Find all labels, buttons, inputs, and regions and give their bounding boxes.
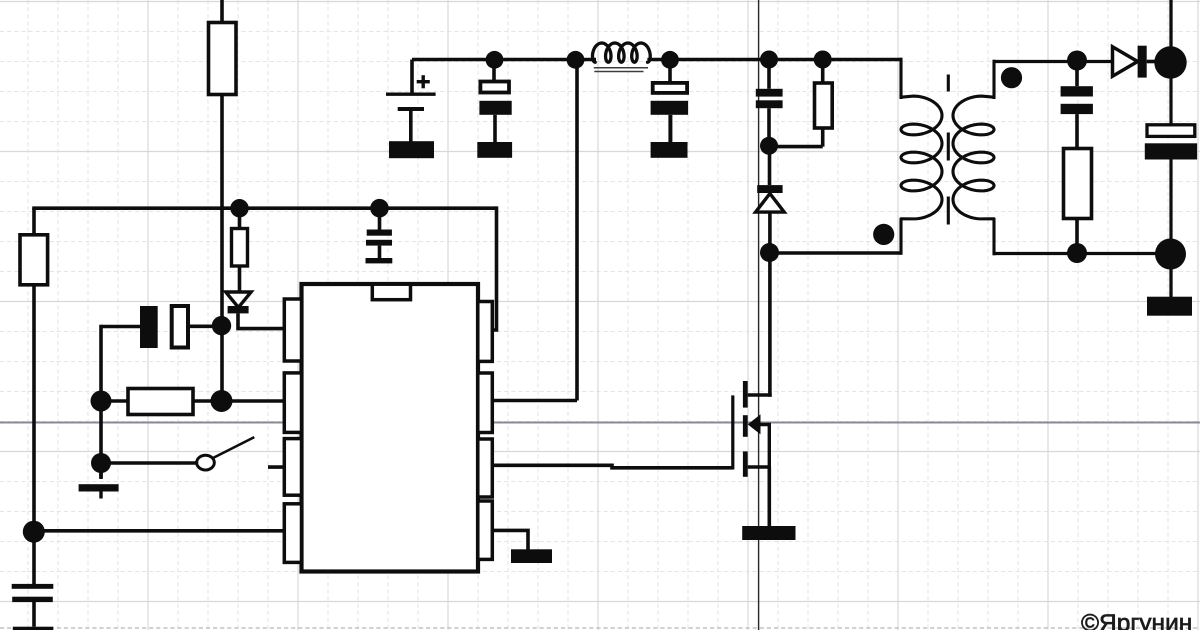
IC U1 top tab [372,284,410,300]
wire [268,465,285,469]
capacitor C8 [1075,66,1079,86]
wire [770,251,902,255]
pin 5 [478,501,493,559]
node [23,521,45,543]
ground [1147,297,1192,316]
capacitor C5 [492,60,496,82]
resistor R5 [821,60,825,84]
pin 4 [284,504,301,563]
capacitor C9 [1169,77,1172,125]
pin 1 [284,299,301,361]
node [661,51,679,69]
node [1067,51,1087,71]
resistor R1 [209,23,237,95]
wire [492,465,733,468]
capacitor C1 [140,306,158,348]
wire [101,461,198,465]
resistor R3 [101,399,128,403]
ground [477,142,512,158]
transistor Q1 [731,395,734,469]
node [486,51,504,69]
wire [32,206,496,210]
transformer T1 [901,58,994,256]
wire [220,94,224,402]
polarity dot secondary [1001,67,1022,88]
pin 7 [478,373,493,433]
wire [1169,0,1172,48]
pin 6 [478,439,493,497]
ground [651,142,688,158]
wire [1169,268,1172,298]
wire [492,206,497,330]
pin 8 [478,302,493,362]
node [230,199,248,217]
capacitor C2 [12,584,54,589]
ground [742,526,795,540]
capacitor C3 [32,602,36,627]
ground [378,246,382,258]
inductor L1 [592,43,650,62]
node output- [1155,239,1186,270]
resistor R6 [1064,149,1092,219]
ground [389,141,434,158]
wire [647,58,901,62]
diode D2 [768,147,772,186]
node [567,51,585,69]
node [212,316,231,335]
pin 2 [284,373,301,433]
svg-text:©Яргунин: ©Яргунин [1081,610,1192,630]
node [91,391,112,412]
node [370,199,389,218]
wire [220,0,224,24]
wire [492,399,577,403]
diode D1 [226,292,251,308]
wire [994,252,1157,255]
wire [412,58,596,62]
polarity dot primary [873,224,894,245]
wire [994,60,1113,63]
node [91,453,111,473]
wire [99,325,103,479]
wire [32,285,36,584]
resistor R4 [32,208,36,235]
wire [238,313,285,328]
node [1067,243,1087,263]
pin 3 [284,439,301,496]
capacitor C7 [767,60,771,89]
wire [34,529,285,533]
ground [511,549,552,563]
diode D3 [1113,47,1138,76]
node [211,390,233,412]
IC U1 [302,284,479,572]
capacitor C4 [378,208,382,229]
capacitor C6 [668,60,672,83]
node [760,243,779,262]
switch S1 [197,455,215,470]
node [814,51,832,69]
node [760,137,778,155]
node [760,51,778,69]
battery B1 [410,60,414,95]
wire [222,399,285,403]
wire [768,253,772,397]
ground [99,463,103,478]
node output+ [1154,46,1186,78]
wire [492,530,528,550]
wire [575,60,579,401]
resistor R2 [238,208,242,228]
